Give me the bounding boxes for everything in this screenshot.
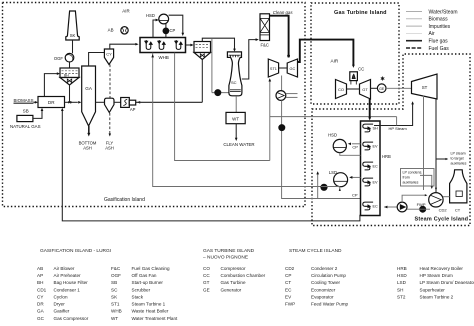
svg-text:SK: SK xyxy=(70,33,76,38)
svg-text:Feed Water Pump: Feed Water Pump xyxy=(311,302,349,307)
circulation pump CP on drum leg xyxy=(165,24,167,38)
svg-text:GASIFICATION ISLAND - LURGI: GASIFICATION ISLAND - LURGI xyxy=(40,248,111,254)
cooling water stubs CD1 xyxy=(286,93,298,95)
fuel gas cleaning F&amp;C column xyxy=(260,14,270,41)
svg-text:LP Steam Drum/ Deaerator: LP Steam Drum/ Deaerator xyxy=(420,280,474,285)
wire fan to bag filter BH xyxy=(69,62,71,68)
svg-text:Condenser 2: Condenser 2 xyxy=(311,266,338,271)
wire riser HRB to LSD xyxy=(352,176,360,178)
svg-text:OGF: OGF xyxy=(54,56,64,61)
svg-text:SC: SC xyxy=(111,287,118,292)
coil 2 in WHB xyxy=(158,40,165,49)
HRB coil SH xyxy=(363,124,373,132)
water pump to scrubber xyxy=(211,38,213,92)
svg-text:AP: AP xyxy=(130,107,136,112)
wire condensate CD1 down and east to HRB xyxy=(282,100,361,198)
svg-text:F&C: F&C xyxy=(111,266,121,271)
water treatment plant WT xyxy=(226,112,245,123)
svg-text:Gasifier: Gasifier xyxy=(54,309,70,314)
svg-text:AB: AB xyxy=(37,266,43,271)
svg-text:Fuel Gas Cleaning: Fuel Gas Cleaning xyxy=(132,266,170,271)
svg-text:GT: GT xyxy=(203,280,210,285)
svg-text:Water Treatment Plant: Water Treatment Plant xyxy=(132,316,179,321)
svg-text:CO: CO xyxy=(338,87,344,92)
air preheater AP xyxy=(121,98,130,108)
LP condensate from auxiliaries box xyxy=(401,169,435,187)
condenser 1 CD1 xyxy=(276,91,286,101)
condensate pump xyxy=(279,125,285,131)
svg-text:F&C: F&C xyxy=(261,42,269,47)
dryer DR xyxy=(38,97,65,108)
wire drum downcomer right leg into WHB xyxy=(169,15,183,34)
svg-text:ST: ST xyxy=(422,85,428,90)
wire up to bag filter 2 xyxy=(201,60,203,103)
condenser 2 CD2 xyxy=(429,193,443,207)
svg-text:EV: EV xyxy=(373,180,379,184)
svg-text:Fuel Gas: Fuel Gas xyxy=(429,46,450,52)
wire compressed fuel gas to combustion chamber (thick) xyxy=(298,40,354,66)
svg-text:BH: BH xyxy=(37,280,43,285)
ST exhaust duct to condenser 2 xyxy=(423,96,425,190)
feed pump into LSD xyxy=(321,184,327,190)
svg-text:GE: GE xyxy=(379,87,385,91)
svg-text:CP: CP xyxy=(352,193,358,198)
svg-text:Off Gas Fan: Off Gas Fan xyxy=(132,273,157,278)
svg-text:LP steam: LP steam xyxy=(451,152,466,156)
wire BH dust to gasifier feed line xyxy=(69,85,71,102)
wire condensate to LSD xyxy=(321,186,340,188)
svg-text:Impurities: Impurities xyxy=(429,24,451,30)
shaft GE-ST xyxy=(386,87,412,89)
stack SK xyxy=(66,11,79,40)
svg-text:Evaporator: Evaporator xyxy=(311,294,334,299)
svg-text:CT: CT xyxy=(285,280,291,285)
svg-text:Circulation Pump: Circulation Pump xyxy=(311,273,346,278)
HRB coil EC xyxy=(363,162,373,170)
wire biomass into dryer xyxy=(34,101,37,103)
svg-text:WT: WT xyxy=(232,116,239,121)
svg-text:FWP: FWP xyxy=(285,302,295,307)
svg-text:GAS TURBINE ISLAND: GAS TURBINE ISLAND xyxy=(203,248,255,254)
wire HP steam to ST1 xyxy=(269,80,271,161)
svg-text:EC: EC xyxy=(373,204,379,208)
wire condensate into CD2 xyxy=(420,175,432,187)
wire dryer off-gas DR to BH xyxy=(44,74,58,97)
svg-text:auxiliaries: auxiliaries xyxy=(451,162,467,166)
svg-text:AIR: AIR xyxy=(122,8,129,13)
svg-text:CC: CC xyxy=(203,273,210,278)
HRB coil EV xyxy=(363,178,373,186)
wire scrubber gas outlet to fuel gas cleaning xyxy=(242,40,257,79)
svg-text:WHB: WHB xyxy=(159,55,169,60)
HRB coil EC xyxy=(363,202,373,210)
svg-text:Cooling Tower: Cooling Tower xyxy=(311,280,340,285)
svg-text:Biomass: Biomass xyxy=(429,17,449,23)
svg-text:HRB: HRB xyxy=(397,266,407,271)
wire bottom ash xyxy=(88,126,90,134)
wire cyclone dust to fly ash hopper (dashed) xyxy=(109,65,111,99)
wire SB to DR xyxy=(33,109,42,118)
wire HSD downcomer to HRB xyxy=(340,153,361,156)
svg-text:Gas Turbine Island: Gas Turbine Island xyxy=(334,10,387,16)
svg-text:SB: SB xyxy=(111,280,117,285)
bag house filter BH (dryer off-gas) xyxy=(60,68,79,78)
svg-text:AB: AB xyxy=(108,28,114,33)
wire scrubber bottom to water treatment WT xyxy=(235,96,237,112)
svg-text:CLEAN WATER: CLEAN WATER xyxy=(223,142,254,147)
svg-text:OGF: OGF xyxy=(111,273,121,278)
wire riser HRB to HSD xyxy=(352,143,361,145)
svg-text:Steam Turbine 1: Steam Turbine 1 xyxy=(132,302,166,307)
svg-text:ST1: ST1 xyxy=(270,67,277,71)
svg-text:Steam Turbine 2: Steam Turbine 2 xyxy=(420,294,454,299)
shaft ST1-GC xyxy=(279,67,288,69)
svg-text:Start-up Burner: Start-up Burner xyxy=(132,280,164,285)
steam turbine 1 ST1 xyxy=(268,59,278,77)
svg-text:ST2: ST2 xyxy=(397,294,406,299)
Gasification Island dotted border xyxy=(3,3,306,207)
svg-text:Gas Turbine: Gas Turbine xyxy=(221,280,246,285)
svg-text:WHB: WHB xyxy=(111,309,122,314)
svg-text:BIOMASS: BIOMASS xyxy=(14,98,34,103)
wire FWP loop into CD2 left xyxy=(402,195,426,202)
svg-text:WT: WT xyxy=(111,316,118,321)
svg-text:Clean gas: Clean gas xyxy=(273,10,294,15)
svg-text:DR: DR xyxy=(48,100,55,105)
svg-text:Compressor: Compressor xyxy=(221,266,246,271)
wire riser with arrow near LSD xyxy=(317,173,319,200)
generator GE xyxy=(377,84,386,93)
feed water pump FWP xyxy=(397,202,407,212)
svg-text:AIR: AIR xyxy=(331,58,339,63)
svg-text:AP: AP xyxy=(37,273,43,278)
svg-text:CO: CO xyxy=(203,266,210,271)
wire riser WHB to drum xyxy=(153,20,158,38)
gas compressor GC xyxy=(287,59,297,77)
svg-text:GE: GE xyxy=(203,287,210,292)
svg-text:auxiliaries: auxiliaries xyxy=(403,181,419,185)
svg-text:to target: to target xyxy=(451,157,464,161)
scrubber SC xyxy=(227,52,242,96)
wire WHB gas out to bag filter 2 xyxy=(186,44,193,46)
svg-text:Air Preheater: Air Preheater xyxy=(54,273,82,278)
svg-text:HSD: HSD xyxy=(328,133,337,138)
char recycle line from second bag filter to gasifier xyxy=(96,101,105,103)
wire second WHB bottom line east xyxy=(175,53,270,161)
HRB coil EV xyxy=(363,142,373,150)
svg-text:Gasification Island: Gasification Island xyxy=(104,197,145,203)
svg-text:Steam Cycle Island: Steam Cycle Island xyxy=(415,217,469,223)
HP steam line HRB to ST xyxy=(374,103,413,126)
steam turbine 2 ST xyxy=(412,74,438,99)
fly ash hopper xyxy=(105,98,115,112)
wire BH2 clean gas to scrubber SC xyxy=(202,38,234,50)
heat recovery boiler HRB xyxy=(361,121,381,216)
compressor CO xyxy=(336,80,347,99)
wire GT exhaust flue gas to HRB (thick) xyxy=(369,99,371,119)
svg-text:Air: Air xyxy=(429,31,435,37)
wire water feed into WHB bottom (from steam island) xyxy=(153,53,321,187)
wire condensate line CD2 to FWP xyxy=(407,208,430,210)
wire dryer outlet to gasifier GA xyxy=(65,101,78,103)
svg-text:CP: CP xyxy=(352,144,358,149)
svg-text:SB: SB xyxy=(23,108,29,113)
svg-text:NATURAL GAS: NATURAL GAS xyxy=(10,124,41,129)
svg-text:GC: GC xyxy=(290,67,296,71)
Steam Cycle Island dotted border xyxy=(312,54,470,226)
svg-text:BH: BH xyxy=(64,74,69,78)
svg-text:CY: CY xyxy=(37,294,43,299)
svg-text:Stack: Stack xyxy=(132,294,144,299)
svg-text:Flue gas: Flue gas xyxy=(429,39,449,45)
svg-text:ASH: ASH xyxy=(105,145,114,150)
svg-text:ASH: ASH xyxy=(83,145,92,150)
svg-text:HSD: HSD xyxy=(397,273,407,278)
svg-text:EV: EV xyxy=(285,294,292,299)
svg-text:CT: CT xyxy=(455,208,461,213)
svg-text:HP Steam: HP Steam xyxy=(389,126,408,131)
wire clean water out xyxy=(235,124,237,140)
svg-text:CP: CP xyxy=(285,273,291,278)
svg-text:– NUOVO PIGNONE: – NUOVO PIGNONE xyxy=(203,255,248,261)
svg-text:Heat Recovery Boiler: Heat Recovery Boiler xyxy=(420,266,464,271)
svg-text:Scrubber: Scrubber xyxy=(132,287,151,292)
svg-text:ST1: ST1 xyxy=(111,302,120,307)
wire stack to off-gas fan xyxy=(72,40,74,53)
CC legs to shaft xyxy=(350,81,352,85)
svg-text:LSD: LSD xyxy=(397,280,407,285)
gasifier GA xyxy=(82,66,96,126)
shaft CO-GT xyxy=(347,88,360,90)
svg-text:Gas Compressor: Gas Compressor xyxy=(54,316,89,321)
Gas Turbine Island dotted border xyxy=(311,3,399,104)
svg-text:GT: GT xyxy=(362,87,368,92)
svg-text:CD2: CD2 xyxy=(439,208,448,213)
wire clean fuel gas to gas compressor GC (thick) xyxy=(270,16,289,58)
shaft GT-GE xyxy=(371,87,378,89)
svg-text:CD2: CD2 xyxy=(285,266,295,271)
gas turbine GT xyxy=(360,80,371,100)
waste heat boiler WHB xyxy=(140,38,186,53)
wire cyclone gas to waste heat boiler xyxy=(110,44,136,49)
svg-text:GA: GA xyxy=(85,86,93,91)
cyclone CY xyxy=(104,49,113,65)
svg-text:HRB: HRB xyxy=(382,154,391,159)
svg-text:STEAM CYCLE ISLAND: STEAM CYCLE ISLAND xyxy=(289,248,342,254)
svg-text:Waste Heat Boiler: Waste Heat Boiler xyxy=(132,309,169,314)
svg-text:Bag House Filter: Bag House Filter xyxy=(54,280,89,285)
cooling tower CT xyxy=(450,170,467,203)
svg-text:Superheater: Superheater xyxy=(420,287,446,292)
svg-text:Generator: Generator xyxy=(221,287,242,292)
svg-text:Water/Steam: Water/Steam xyxy=(429,9,458,15)
coil 3 in WHB xyxy=(175,40,182,49)
svg-text:HSD: HSD xyxy=(146,13,155,18)
svg-text:SC: SC xyxy=(231,80,237,85)
wire economizer to feed water pump FWP xyxy=(384,206,397,208)
svg-text:GC: GC xyxy=(37,316,45,321)
bag house filter 2 BH xyxy=(194,42,211,53)
svg-text:✱: ✱ xyxy=(380,76,385,83)
svg-text:SK: SK xyxy=(111,294,118,299)
svg-text:CC: CC xyxy=(358,67,364,72)
wire flue gas from HRB to dryer (bottom long line) xyxy=(62,109,360,221)
svg-text:CY: CY xyxy=(106,52,112,57)
svg-text:Dryer: Dryer xyxy=(54,302,66,307)
wire ST1 exhaust to condenser 1 xyxy=(281,76,283,91)
off-gas fan OGF xyxy=(65,53,74,62)
svg-text:SH: SH xyxy=(397,287,403,292)
svg-text:Condenser 1: Condenser 1 xyxy=(54,287,81,292)
wire fly ash out (dashed) xyxy=(109,113,111,134)
svg-text:Cyclon: Cyclon xyxy=(54,294,68,299)
svg-text:EC: EC xyxy=(373,164,379,168)
coil 1 in WHB xyxy=(145,40,152,49)
svg-text:GA: GA xyxy=(37,309,45,314)
svg-text:Economizer: Economizer xyxy=(311,287,336,292)
node junction BH line joins DR outlet xyxy=(68,101,71,103)
svg-text:EV: EV xyxy=(373,144,379,148)
svg-text:HP Steam Drum: HP Steam Drum xyxy=(420,273,454,278)
svg-text:Air Blower: Air Blower xyxy=(54,266,75,271)
wire steam branch to ST1 joins HP line xyxy=(396,117,398,126)
svg-text:CP: CP xyxy=(170,28,176,33)
svg-text:EC: EC xyxy=(285,287,292,292)
svg-text:SH: SH xyxy=(373,126,379,130)
svg-text:from: from xyxy=(403,176,410,180)
svg-text:CD1: CD1 xyxy=(37,287,47,292)
LP steam to auxiliaries xyxy=(436,158,447,160)
wire CD2 to CT xyxy=(443,196,450,198)
svg-text:Combustion Chamber: Combustion Chamber xyxy=(221,273,266,278)
legend xyxy=(406,11,422,13)
svg-text:DR: DR xyxy=(37,302,44,307)
svg-text:LP condens.: LP condens. xyxy=(403,171,423,175)
wire gasifier gas outlet to cyclone xyxy=(89,53,105,67)
condensate pump (small) xyxy=(420,206,426,212)
combustion chamber CC xyxy=(350,72,358,81)
